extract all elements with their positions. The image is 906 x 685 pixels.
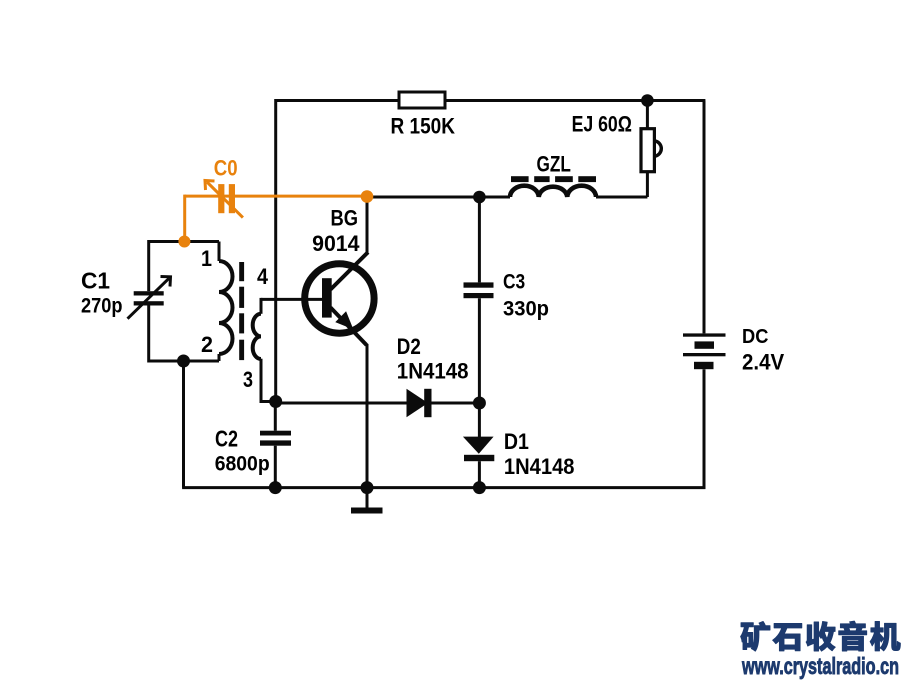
wire C1 box bottom — [149, 360, 219, 363]
capacitor C1 (variable) — [134, 291, 164, 305]
svg-text:D2: D2 — [397, 334, 421, 359]
capacitor C3 — [464, 282, 494, 298]
battery DC 2.4V — [683, 333, 726, 369]
wire C3 column — [478, 197, 481, 282]
wire C1 left top — [147, 240, 150, 291]
wire left drop of rail — [274, 99, 277, 402]
capacitor C2 — [260, 431, 291, 446]
svg-text:C3: C3 — [503, 271, 525, 294]
svg-text:R 150K: R 150K — [391, 114, 456, 139]
svg-text:C2: C2 — [215, 426, 238, 452]
svg-text:DC: DC — [742, 326, 768, 348]
wire transformer secondary pin3 — [260, 359, 263, 403]
node C1 bottom — [177, 355, 190, 368]
resistor R 150K — [399, 92, 445, 108]
svg-text:1: 1 — [201, 246, 212, 271]
wire ground stub — [366, 488, 369, 508]
svg-text:6800p: 6800p — [215, 453, 270, 476]
svg-text:BG: BG — [331, 206, 359, 231]
svg-text:2.4V: 2.4V — [742, 350, 784, 375]
svg-text:3: 3 — [243, 367, 253, 392]
transformer T secondary coil — [253, 314, 261, 359]
node D1 bottom — [473, 481, 486, 494]
svg-text:2: 2 — [201, 332, 213, 357]
wire top rail — [276, 99, 706, 102]
svg-text:9014: 9014 — [312, 231, 360, 256]
wire C2 column — [274, 402, 277, 431]
node D2 cathode — [473, 397, 486, 410]
watermark logo — [741, 621, 901, 651]
wire D1 column — [478, 403, 481, 437]
wire transformer secondary pin4 — [261, 298, 323, 301]
svg-text:330p: 330p — [503, 297, 549, 320]
svg-text:C0: C0 — [214, 155, 238, 180]
wire collector top — [366, 197, 369, 253]
wire C1 left bottom — [147, 305, 150, 363]
wire earphone top to rail — [646, 101, 649, 129]
node junction dots — [177, 94, 654, 494]
diode D1 — [463, 437, 494, 454]
node collector top — [473, 191, 486, 204]
diode D2 — [407, 389, 429, 417]
svg-text:EJ 60Ω: EJ 60Ω — [572, 112, 632, 137]
wire D2 row — [276, 402, 408, 405]
earphone EJ 60 ohm — [654, 141, 661, 157]
wire node to GZL — [367, 196, 510, 199]
wire GZL to earphone — [596, 196, 647, 199]
wire bottom rail — [182, 486, 705, 489]
wire battery to bottom corner — [703, 369, 706, 489]
svg-text:1N4148: 1N4148 — [504, 454, 575, 479]
node C2 bottom — [269, 481, 282, 494]
node earphone rail — [641, 94, 654, 107]
wire left column — [182, 361, 185, 488]
transformer T primary coil — [219, 261, 233, 354]
capacitor C0 (orange trimmer) — [185, 181, 366, 242]
svg-text:4: 4 — [257, 264, 269, 289]
svg-text:www.crystalradio.cn: www.crystalradio.cn — [741, 653, 899, 679]
ground — [351, 508, 383, 514]
wire right side down to battery — [703, 101, 706, 334]
wire transformer primary stubs — [218, 242, 221, 262]
svg-text:1N4148: 1N4148 — [397, 359, 469, 384]
wire emitter bottom — [366, 344, 369, 488]
svg-text:D1: D1 — [504, 429, 529, 454]
node pin3 junction — [269, 395, 282, 408]
svg-text:270p: 270p — [81, 294, 123, 317]
inductor GZL — [510, 186, 596, 197]
transistor Q BG9014 — [305, 264, 374, 333]
node emitter ground — [361, 481, 374, 494]
svg-text:GZL: GZL — [537, 151, 571, 176]
transformer T core dashes — [239, 262, 244, 360]
wire C1 box top — [149, 240, 219, 243]
svg-text:C1: C1 — [81, 267, 110, 293]
